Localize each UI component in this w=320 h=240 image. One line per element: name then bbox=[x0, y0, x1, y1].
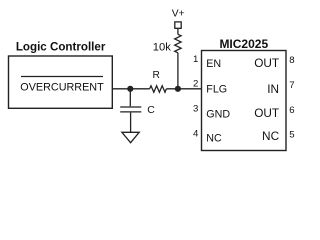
svg-text:GND: GND bbox=[206, 109, 230, 121]
junction node A bbox=[127, 86, 133, 92]
svg-text:IN: IN bbox=[267, 82, 279, 96]
svg-text:EN: EN bbox=[206, 58, 221, 70]
svg-text:8: 8 bbox=[289, 55, 294, 66]
wire: resistor R to MIC2025 pin 2 bbox=[166, 88, 201, 90]
svg-text:6: 6 bbox=[289, 105, 294, 116]
capacitor C top plate bbox=[120, 106, 141, 108]
svg-text:1: 1 bbox=[193, 54, 198, 65]
svg-text:OUT: OUT bbox=[254, 56, 279, 70]
svg-text:FLG: FLG bbox=[206, 84, 227, 96]
svg-text:NC: NC bbox=[206, 132, 222, 144]
svg-text:10k: 10k bbox=[153, 41, 171, 53]
V+ terminal square bbox=[175, 22, 181, 28]
svg-text:MIC2025: MIC2025 bbox=[219, 37, 268, 51]
logic controller box bbox=[9, 56, 113, 108]
svg-text:R: R bbox=[153, 70, 160, 81]
wire: V+ terminal to resistor 10k bbox=[177, 28, 179, 34]
svg-text:C: C bbox=[147, 104, 155, 116]
svg-text:4: 4 bbox=[193, 129, 199, 140]
svg-text:5: 5 bbox=[289, 130, 294, 141]
capacitor C bottom plate bbox=[120, 111, 141, 113]
ground bbox=[122, 132, 139, 142]
svg-text:NC: NC bbox=[262, 129, 280, 143]
svg-text:OVERCURRENT: OVERCURRENT bbox=[20, 82, 104, 94]
wire: capacitor C to ground bbox=[130, 113, 132, 133]
svg-text:Logic Controller: Logic Controller bbox=[16, 40, 106, 53]
resistor R bbox=[150, 86, 167, 92]
svg-text:OUT: OUT bbox=[254, 106, 279, 120]
wire: controller output to resistor R bbox=[112, 88, 149, 90]
svg-text:V+: V+ bbox=[172, 9, 185, 20]
svg-text:7: 7 bbox=[289, 80, 294, 91]
MIC2025 box U1 bbox=[202, 51, 287, 151]
wire: junction A to capacitor C bbox=[129, 89, 131, 107]
svg-text:2: 2 bbox=[193, 79, 198, 90]
svg-text:3: 3 bbox=[193, 104, 198, 115]
resistor 10k bbox=[175, 34, 181, 53]
wire: resistor 10k to junction B bbox=[177, 53, 179, 89]
OVERCURRENT overline bbox=[21, 76, 103, 78]
junction node B bbox=[175, 86, 181, 92]
